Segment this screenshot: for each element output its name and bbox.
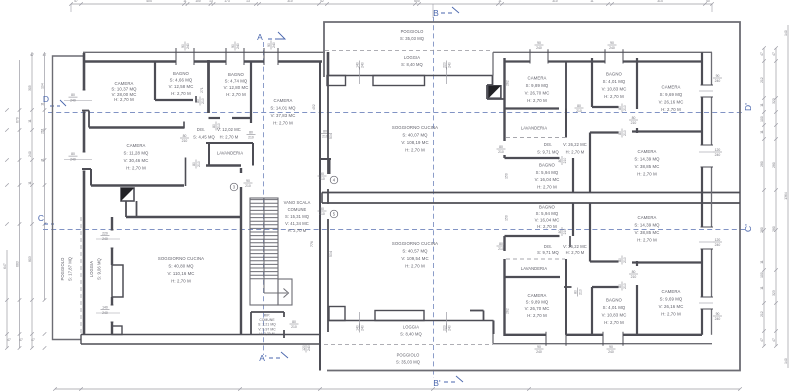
- svg-text:V: 38,85 MC: V: 38,85 MC: [635, 230, 660, 235]
- svg-text:90: 90: [716, 312, 720, 316]
- svg-text:S: 9,69 MQ: S: 9,69 MQ: [660, 297, 683, 302]
- svg-text:1364: 1364: [784, 192, 788, 200]
- svg-text:210: 210: [579, 289, 583, 295]
- svg-text:V: 26,70 MC: V: 26,70 MC: [525, 306, 550, 311]
- svg-text:H: 2,70 M: H: 2,70 M: [537, 224, 557, 229]
- svg-text:V: 41,34 MC: V: 41,34 MC: [285, 221, 309, 226]
- svg-text:47: 47: [31, 338, 35, 342]
- svg-text:H: 2,70 M: H: 2,70 M: [171, 91, 191, 96]
- svg-text:V: 26,22 MC: V: 26,22 MC: [563, 244, 587, 249]
- svg-text:V: 12,58 MC: V: 12,58 MC: [169, 84, 194, 89]
- svg-text:CAMERA: CAMERA: [662, 85, 681, 90]
- svg-text:305: 305: [28, 85, 32, 91]
- svg-text:803: 803: [28, 256, 32, 262]
- svg-text:H: 2,70 M: H: 2,70 M: [259, 332, 274, 336]
- svg-text:504: 504: [329, 133, 333, 139]
- svg-text:S: 4,74 MQ: S: 4,74 MQ: [225, 79, 248, 84]
- svg-text:V: 37,83 MC: V: 37,83 MC: [271, 113, 296, 118]
- svg-text:LOGGIA: LOGGIA: [403, 325, 419, 330]
- svg-text:S: 35,03 MQ: S: 35,03 MQ: [400, 36, 424, 41]
- svg-text:100: 100: [760, 272, 764, 278]
- svg-text:323: 323: [772, 290, 776, 296]
- svg-text:SOGGIORNO CUCINA: SOGGIORNO CUCINA: [392, 241, 438, 246]
- svg-text:80: 80: [577, 104, 581, 108]
- svg-text:LOGGIA: LOGGIA: [404, 55, 420, 60]
- svg-text:80: 80: [573, 290, 577, 294]
- svg-text:210: 210: [623, 105, 627, 111]
- svg-text:DIS.: DIS.: [197, 127, 205, 132]
- svg-text:11: 11: [760, 286, 764, 290]
- svg-text:90: 90: [320, 207, 324, 211]
- svg-text:504: 504: [329, 251, 333, 257]
- svg-text:240: 240: [536, 350, 542, 354]
- svg-text:D: D: [43, 94, 49, 104]
- svg-text:B': B': [433, 378, 441, 388]
- svg-text:210: 210: [623, 283, 627, 289]
- svg-text:140: 140: [355, 325, 359, 331]
- svg-text:H: 2,70 M: H: 2,70 M: [604, 94, 624, 99]
- svg-text:V: 26,22 MC: V: 26,22 MC: [563, 142, 587, 147]
- svg-text:47: 47: [760, 52, 764, 56]
- svg-text:COMUNE: COMUNE: [259, 318, 275, 322]
- svg-text:310: 310: [287, 0, 293, 3]
- svg-text:240: 240: [70, 98, 76, 102]
- svg-text:S: 5,94 MQ: S: 5,94 MQ: [536, 170, 559, 175]
- svg-text:210: 210: [623, 257, 627, 263]
- svg-text:220: 220: [442, 325, 446, 331]
- svg-text:90: 90: [267, 43, 271, 47]
- svg-text:S: 40,07 MQ: S: 40,07 MQ: [402, 133, 428, 138]
- svg-text:262: 262: [506, 80, 510, 86]
- svg-text:212: 212: [760, 77, 764, 83]
- svg-text:280: 280: [760, 161, 764, 167]
- svg-text:11: 11: [28, 119, 32, 123]
- svg-text:S: 5,94 MQ: S: 5,94 MQ: [536, 211, 559, 216]
- svg-text:210: 210: [245, 184, 251, 188]
- svg-text:90: 90: [246, 179, 250, 183]
- svg-text:194: 194: [41, 83, 45, 89]
- svg-text:80: 80: [632, 270, 636, 274]
- svg-text:210: 210: [197, 161, 201, 167]
- svg-text:90: 90: [716, 74, 720, 78]
- svg-text:240: 240: [609, 46, 615, 50]
- svg-text:V: 109,54 MC: V: 109,54 MC: [401, 256, 428, 261]
- svg-text:452: 452: [312, 104, 316, 110]
- svg-text:80: 80: [192, 162, 196, 166]
- svg-text:S: 15,31 MQ: S: 15,31 MQ: [285, 214, 309, 219]
- svg-text:240: 240: [361, 325, 365, 331]
- svg-text:210: 210: [319, 212, 325, 216]
- svg-text:DIS.: DIS.: [544, 244, 552, 249]
- svg-text:POGGIOLO: POGGIOLO: [60, 258, 65, 281]
- svg-text:210: 210: [623, 130, 627, 136]
- svg-text:S: 9,71 MQ: S: 9,71 MQ: [537, 150, 559, 155]
- svg-text:47: 47: [760, 338, 764, 342]
- svg-text:BAGNO: BAGNO: [539, 163, 556, 168]
- svg-text:240: 240: [307, 345, 311, 351]
- svg-text:11: 11: [760, 130, 764, 134]
- svg-text:120: 120: [715, 238, 721, 242]
- svg-text:210: 210: [498, 150, 504, 154]
- svg-text:S: 10,37 MQ: S: 10,37 MQ: [111, 86, 137, 91]
- svg-text:271: 271: [200, 87, 204, 93]
- svg-text:210: 210: [201, 98, 205, 104]
- svg-text:V: 38,85 MC: V: 38,85 MC: [635, 164, 660, 169]
- svg-text:210: 210: [631, 121, 637, 125]
- svg-text:262: 262: [506, 308, 510, 314]
- svg-text:220: 220: [102, 231, 108, 235]
- svg-text:404: 404: [146, 0, 152, 3]
- svg-text:H: 2,70 M: H: 2,70 M: [661, 107, 681, 112]
- svg-text:C: C: [38, 213, 44, 223]
- svg-text:LAVANDERIA: LAVANDERIA: [217, 151, 243, 156]
- svg-text:240: 240: [186, 43, 190, 49]
- svg-text:BAGNO: BAGNO: [173, 71, 190, 76]
- svg-text:240: 240: [715, 317, 721, 321]
- svg-text:80: 80: [212, 124, 216, 128]
- svg-text:LAVANDERIA: LAVANDERIA: [521, 126, 547, 131]
- svg-text:S: 9,89 MQ: S: 9,89 MQ: [526, 300, 549, 305]
- svg-text:H: 2,70 M: H: 2,70 M: [171, 279, 191, 284]
- svg-text:S: 4,66 MQ: S: 4,66 MQ: [170, 78, 193, 83]
- svg-text:V: 10,83 MC: V: 10,83 MC: [602, 313, 627, 318]
- svg-text:210: 210: [248, 136, 254, 140]
- svg-text:13: 13: [209, 0, 213, 3]
- svg-text:POGGIOLO: POGGIOLO: [397, 353, 420, 358]
- svg-text:210: 210: [322, 135, 328, 139]
- svg-text:H: 2,70 M: H: 2,70 M: [114, 97, 134, 102]
- svg-text:47: 47: [19, 338, 23, 342]
- svg-text:SOGGIORNO CUCINA: SOGGIORNO CUCINA: [158, 256, 204, 261]
- svg-text:V: 26,70 MC: V: 26,70 MC: [525, 91, 550, 96]
- svg-text:140: 140: [102, 305, 108, 309]
- svg-text:11: 11: [498, 0, 502, 3]
- svg-text:90: 90: [610, 41, 614, 45]
- svg-text:S: 17,87 MQ: S: 17,87 MQ: [68, 257, 73, 281]
- svg-text:B: B: [433, 8, 439, 18]
- svg-text:80: 80: [499, 145, 503, 149]
- svg-text:90: 90: [537, 345, 541, 349]
- svg-text:S: 8,40 MQ: S: 8,40 MQ: [400, 332, 422, 337]
- svg-text:100: 100: [195, 0, 201, 3]
- svg-text:S: 35,03 MQ: S: 35,03 MQ: [396, 360, 420, 365]
- svg-text:210: 210: [576, 109, 582, 113]
- svg-text:314: 314: [657, 0, 663, 3]
- svg-text:S: 14,01 MQ: S: 14,01 MQ: [270, 106, 296, 111]
- svg-text:POGGIOLO: POGGIOLO: [401, 29, 424, 34]
- svg-text:210: 210: [631, 275, 637, 279]
- svg-text:240: 240: [102, 311, 108, 315]
- svg-text:H: 2,70 M: H: 2,70 M: [288, 228, 307, 233]
- svg-text:H: 2,70 M: H: 2,70 M: [604, 320, 624, 325]
- svg-text:BAGNO: BAGNO: [606, 298, 623, 303]
- svg-text:SOGGIORNO CUCINA: SOGGIORNO CUCINA: [392, 125, 438, 130]
- svg-text:DIS.: DIS.: [544, 142, 552, 147]
- svg-text:173: 173: [224, 0, 230, 3]
- svg-text:13: 13: [246, 0, 250, 3]
- svg-text:V: 16,04 MC: V: 16,04 MC: [535, 218, 560, 223]
- svg-text:S: 4,01 MQ: S: 4,01 MQ: [603, 79, 626, 84]
- svg-text:H: 2,70 M: H: 2,70 M: [527, 313, 547, 318]
- svg-text:S: 8,40 MQ: S: 8,40 MQ: [401, 62, 423, 67]
- svg-text:80: 80: [196, 99, 200, 103]
- svg-text:240: 240: [361, 62, 365, 68]
- svg-text:240: 240: [715, 153, 721, 157]
- svg-text:140: 140: [355, 62, 359, 68]
- svg-text:47: 47: [43, 53, 47, 57]
- svg-text:C': C': [743, 224, 753, 232]
- svg-text:150: 150: [505, 215, 509, 221]
- svg-text:V: 26,16 MC: V: 26,16 MC: [659, 304, 684, 309]
- svg-text:H: 2,70 M: H: 2,70 M: [273, 121, 293, 126]
- svg-text:V: 12,02 MC: V: 12,02 MC: [217, 127, 241, 132]
- svg-text:150: 150: [505, 173, 509, 179]
- svg-text:11: 11: [28, 181, 32, 185]
- svg-text:210: 210: [563, 158, 567, 164]
- svg-text:80: 80: [249, 130, 253, 134]
- svg-text:CAMERA: CAMERA: [528, 76, 547, 81]
- svg-text:V: 10,83 MC: V: 10,83 MC: [602, 87, 627, 92]
- svg-text:VANO SCALA: VANO SCALA: [284, 200, 311, 205]
- svg-text:120: 120: [302, 345, 306, 351]
- svg-text:212: 212: [760, 311, 764, 317]
- svg-text:80: 80: [323, 129, 327, 133]
- svg-text:80: 80: [618, 131, 622, 135]
- svg-text:LAVANDERIA: LAVANDERIA: [521, 266, 547, 271]
- svg-text:80: 80: [618, 106, 622, 110]
- svg-text:H: 2,70 M: H: 2,70 M: [661, 312, 681, 317]
- svg-text:V: 16,04 MC: V: 16,04 MC: [535, 177, 560, 182]
- svg-text:V: 28,00 MC: V: 28,00 MC: [112, 92, 137, 97]
- svg-text:S: 9,89 MQ: S: 9,89 MQ: [526, 83, 549, 88]
- svg-text:S: 9,06 MQ: S: 9,06 MQ: [97, 258, 102, 280]
- svg-text:S: 14,39 MQ: S: 14,39 MQ: [634, 223, 660, 228]
- svg-text:A': A': [259, 353, 267, 363]
- svg-text:240: 240: [608, 350, 614, 354]
- svg-text:11: 11: [590, 0, 594, 3]
- svg-text:210: 210: [319, 177, 325, 181]
- svg-text:647: 647: [3, 263, 7, 269]
- svg-text:240: 240: [715, 79, 721, 83]
- svg-text:COMUNE: COMUNE: [288, 207, 307, 212]
- svg-text:11: 11: [183, 0, 187, 3]
- svg-text:V: 5,97 MC: V: 5,97 MC: [258, 327, 276, 331]
- svg-text:H: 2,70 M: H: 2,70 M: [637, 172, 657, 177]
- svg-text:280: 280: [772, 162, 776, 168]
- svg-text:BAGNO: BAGNO: [606, 72, 623, 77]
- svg-text:V: 12,80 MC: V: 12,80 MC: [224, 85, 249, 90]
- svg-text:80: 80: [558, 230, 562, 234]
- svg-text:280: 280: [760, 227, 764, 233]
- svg-text:S: 14,39 MQ: S: 14,39 MQ: [634, 157, 660, 162]
- svg-text:A: A: [257, 32, 263, 42]
- svg-text:H: 2,70 M: H: 2,70 M: [537, 184, 557, 189]
- svg-text:240: 240: [536, 46, 542, 50]
- svg-text:80: 80: [632, 116, 636, 120]
- svg-text:S: 2,21 MQ: S: 2,21 MQ: [258, 323, 276, 327]
- svg-text:H: 2,70 M: H: 2,70 M: [566, 250, 585, 255]
- svg-text:240: 240: [272, 42, 276, 48]
- svg-text:90: 90: [609, 345, 613, 349]
- svg-text:90: 90: [537, 41, 541, 45]
- svg-text:H: 2,70 M: H: 2,70 M: [637, 238, 657, 243]
- svg-text:11: 11: [760, 260, 764, 264]
- svg-text:S: 11,28 MQ: S: 11,28 MQ: [124, 151, 149, 156]
- svg-text:80: 80: [71, 93, 75, 97]
- svg-text:CAMERA: CAMERA: [528, 293, 547, 298]
- svg-text:240: 240: [448, 325, 452, 331]
- svg-text:S: 40,57 MQ: S: 40,57 MQ: [402, 249, 428, 254]
- svg-text:H: 2,70 M: H: 2,70 M: [405, 148, 425, 153]
- svg-text:CAMERA: CAMERA: [127, 143, 146, 148]
- svg-text:V: 26,16 MC: V: 26,16 MC: [659, 100, 684, 105]
- svg-text:CAMERA: CAMERA: [115, 81, 134, 86]
- svg-text:683: 683: [16, 261, 20, 267]
- svg-text:S: 9,69 MQ: S: 9,69 MQ: [660, 92, 683, 97]
- svg-text:BAGNO: BAGNO: [228, 72, 245, 77]
- svg-text:S: 4,01 MQ: S: 4,01 MQ: [603, 305, 626, 310]
- svg-text:210: 210: [498, 247, 504, 251]
- svg-text:100: 100: [760, 116, 764, 122]
- svg-text:S: 9,71 MQ: S: 9,71 MQ: [537, 250, 559, 255]
- svg-text:H: 2,70 M: H: 2,70 M: [566, 150, 585, 155]
- svg-text:40: 40: [706, 0, 710, 3]
- svg-text:80: 80: [558, 159, 562, 163]
- svg-text:47: 47: [772, 338, 776, 342]
- svg-text:42: 42: [320, 0, 324, 3]
- svg-text:240: 240: [236, 43, 240, 49]
- svg-text:V: 110,16 MC: V: 110,16 MC: [168, 271, 195, 276]
- svg-text:776: 776: [310, 241, 314, 247]
- svg-text:47: 47: [74, 0, 78, 3]
- svg-text:220: 220: [442, 62, 446, 68]
- svg-text:140: 140: [784, 358, 788, 364]
- svg-text:H: 2,70 M: H: 2,70 M: [527, 98, 547, 103]
- svg-text:D': D': [743, 103, 753, 111]
- svg-text:600: 600: [414, 0, 420, 3]
- svg-text:240: 240: [448, 62, 452, 68]
- svg-text:90: 90: [231, 44, 235, 48]
- svg-text:H: 2,70 M: H: 2,70 M: [126, 166, 146, 171]
- svg-text:80: 80: [183, 134, 187, 138]
- svg-text:CAMERA: CAMERA: [638, 149, 657, 154]
- svg-text:80: 80: [292, 320, 296, 324]
- svg-text:240: 240: [28, 151, 32, 157]
- svg-text:210: 210: [182, 139, 188, 143]
- svg-text:670: 670: [16, 117, 20, 123]
- svg-text:H: 2,70 M: H: 2,70 M: [226, 92, 246, 97]
- svg-text:80: 80: [71, 152, 75, 156]
- svg-text:90: 90: [181, 44, 185, 48]
- svg-text:CAMERA: CAMERA: [638, 215, 657, 220]
- svg-text:V: 30,46 MC: V: 30,46 MC: [124, 158, 149, 163]
- svg-text:H: 2,70 M: H: 2,70 M: [220, 135, 239, 140]
- svg-text:LOGGIA: LOGGIA: [89, 261, 94, 277]
- svg-text:RIP.: RIP.: [264, 314, 270, 318]
- svg-text:210: 210: [291, 325, 297, 329]
- svg-text:240: 240: [715, 243, 721, 247]
- svg-text:80: 80: [499, 242, 503, 246]
- svg-text:240: 240: [70, 157, 76, 161]
- svg-text:BAGNO: BAGNO: [539, 204, 556, 209]
- svg-text:CAMERA: CAMERA: [662, 289, 681, 294]
- svg-text:140: 140: [784, 30, 788, 36]
- svg-text:V: 108,19 MC: V: 108,19 MC: [401, 140, 428, 145]
- svg-text:CAMERA: CAMERA: [274, 98, 293, 103]
- svg-text:310: 310: [552, 0, 558, 3]
- svg-text:90: 90: [320, 172, 324, 176]
- svg-text:47: 47: [772, 52, 776, 56]
- svg-text:11: 11: [41, 158, 45, 162]
- svg-text:80: 80: [618, 258, 622, 262]
- svg-text:H: 2,70 M: H: 2,70 M: [405, 264, 425, 269]
- svg-text:11: 11: [760, 103, 764, 107]
- svg-text:120: 120: [715, 148, 721, 152]
- svg-text:47: 47: [30, 53, 34, 57]
- svg-text:240: 240: [102, 237, 108, 241]
- svg-text:210: 210: [563, 229, 567, 235]
- svg-text:80: 80: [618, 284, 622, 288]
- svg-text:S: 4,45 MQ: S: 4,45 MQ: [193, 135, 215, 140]
- svg-text:47: 47: [7, 338, 11, 342]
- svg-text:S: 40,80 MQ: S: 40,80 MQ: [168, 264, 194, 269]
